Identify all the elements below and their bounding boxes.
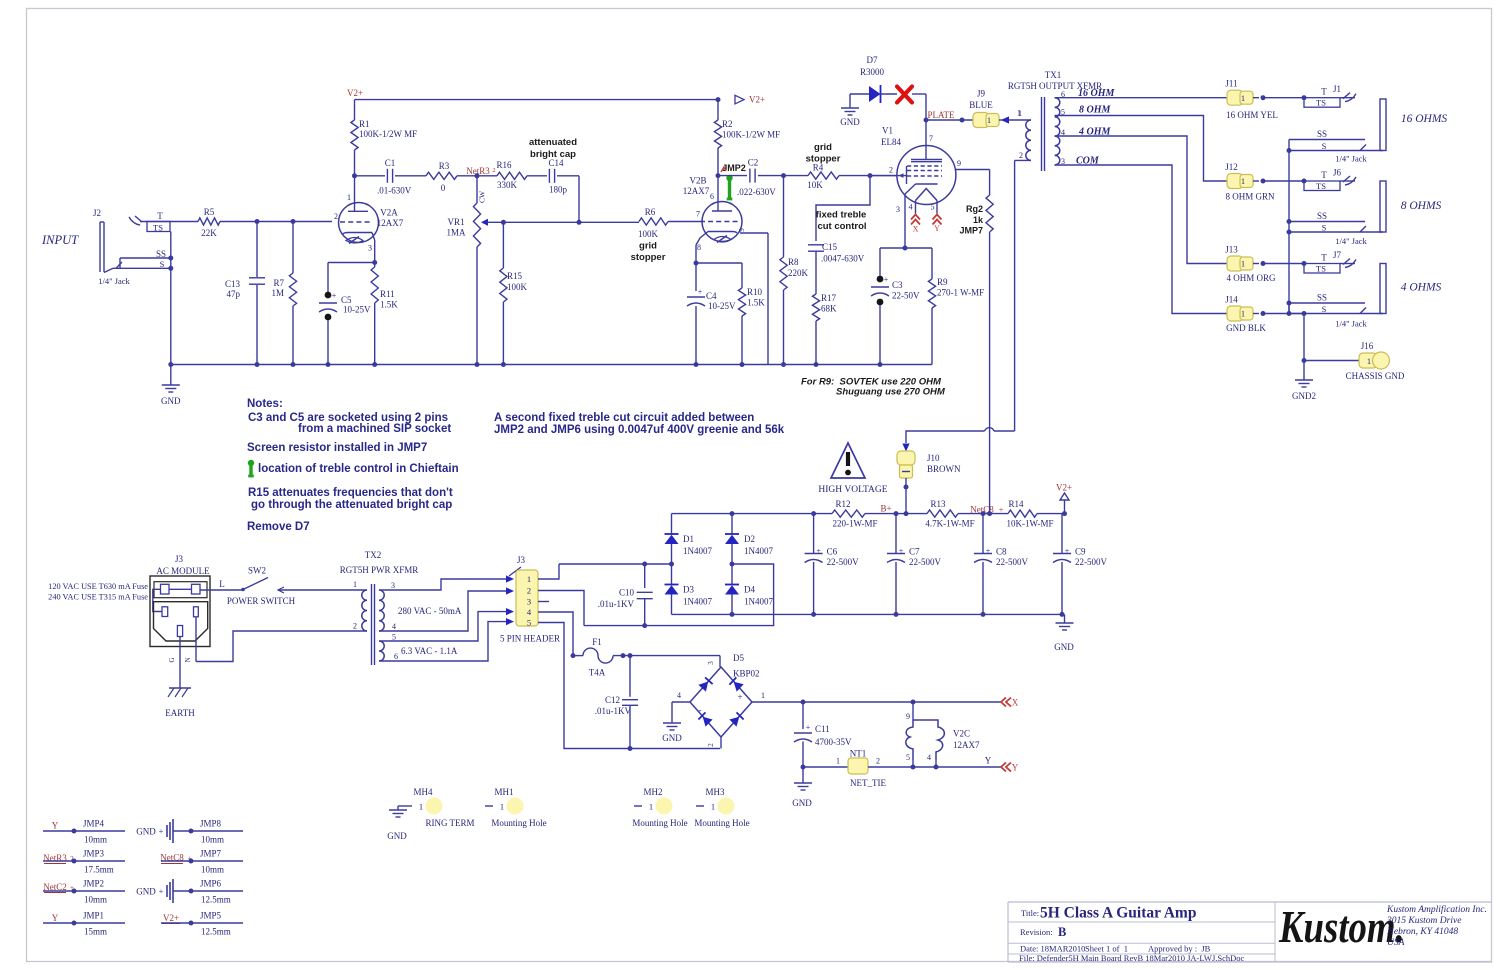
svg-text:J16: J16: [1361, 341, 1374, 351]
svg-text:C1: C1: [385, 158, 396, 168]
svg-text:GND: GND: [840, 117, 860, 127]
svg-text:INPUT: INPUT: [41, 233, 79, 247]
svg-text:4: 4: [927, 753, 931, 762]
svg-text:1: 1: [1018, 109, 1022, 118]
svg-text:D1: D1: [683, 534, 694, 544]
svg-text:Remove D7: Remove D7: [247, 521, 310, 533]
svg-text:8 OHMS: 8 OHMS: [1401, 200, 1442, 212]
svg-text:+: +: [816, 547, 821, 556]
svg-text:TS: TS: [153, 223, 163, 233]
svg-text:NET_TIE: NET_TIE: [850, 778, 886, 788]
svg-text:Title:: Title:: [1021, 908, 1039, 918]
svg-text:J9: J9: [977, 89, 986, 99]
svg-text:15mm: 15mm: [84, 927, 107, 937]
svg-text:10K-1W-MF: 10K-1W-MF: [1007, 519, 1054, 529]
svg-text:4: 4: [677, 691, 681, 700]
svg-text:R5: R5: [204, 207, 215, 217]
svg-text:+: +: [737, 692, 742, 702]
svg-text:1: 1: [1241, 176, 1245, 186]
svg-text:GND BLK: GND BLK: [1226, 323, 1266, 333]
svg-text:4 OHMS: 4 OHMS: [1401, 282, 1442, 294]
svg-text:3: 3: [896, 205, 900, 214]
svg-text:JMP2: JMP2: [83, 879, 104, 889]
svg-text:4.7K-1W-MF: 4.7K-1W-MF: [925, 519, 974, 529]
svg-text:C13: C13: [225, 279, 241, 289]
svg-text:JMP6: JMP6: [200, 879, 222, 889]
svg-text:10mm: 10mm: [201, 835, 224, 845]
svg-text:10mm: 10mm: [84, 835, 107, 845]
svg-text:J13: J13: [1225, 245, 1238, 255]
svg-text:2: 2: [876, 757, 880, 766]
svg-text:EARTH: EARTH: [165, 708, 195, 718]
svg-text:G: G: [168, 657, 176, 662]
svg-text:JMP3: JMP3: [83, 849, 105, 859]
svg-text:R4: R4: [813, 163, 824, 173]
svg-text:T4A: T4A: [589, 668, 606, 678]
svg-text:CHASSIS GND: CHASSIS GND: [1346, 371, 1405, 381]
svg-text:GND: GND: [792, 798, 812, 808]
svg-text:TS: TS: [1316, 264, 1326, 274]
svg-text:AC MODULE: AC MODULE: [156, 566, 210, 576]
svg-text:J14: J14: [1225, 295, 1238, 305]
svg-text:grid: grid: [814, 142, 832, 153]
svg-text:J10: J10: [927, 453, 940, 463]
svg-text:1/4" Jack: 1/4" Jack: [98, 276, 130, 286]
svg-text:RGT5H PWR XFMR: RGT5H PWR XFMR: [340, 565, 419, 575]
svg-text:+: +: [743, 168, 747, 175]
svg-text:C7: C7: [909, 547, 920, 557]
svg-text:D4: D4: [744, 585, 755, 595]
svg-text:12AX7: 12AX7: [683, 186, 710, 196]
svg-text:2: 2: [353, 622, 357, 631]
svg-text:2: 2: [889, 166, 893, 175]
svg-text:5: 5: [906, 753, 910, 762]
svg-text:CW: CW: [478, 190, 487, 203]
svg-text:X: X: [913, 225, 919, 234]
svg-text:TS: TS: [1316, 181, 1326, 191]
svg-text:C10: C10: [619, 588, 635, 598]
svg-text:7: 7: [929, 134, 933, 143]
svg-text:J11: J11: [1225, 79, 1237, 89]
svg-text:location of treble control in: location of treble control in Chieftain: [258, 463, 459, 475]
svg-text:1: 1: [1367, 356, 1371, 366]
svg-text:C2: C2: [748, 158, 759, 168]
svg-text:A second fixed treble cut circ: A second fixed treble cut circuit added …: [494, 412, 754, 424]
svg-text:4: 4: [909, 203, 913, 212]
svg-text:V2+: V2+: [163, 913, 179, 923]
svg-text:17.5mm: 17.5mm: [84, 865, 114, 875]
svg-text:6: 6: [394, 652, 398, 661]
svg-text:JMP2 and JMP6 using 0.0047uf 4: JMP2 and JMP6 using 0.0047uf 400V greeni…: [494, 424, 785, 436]
svg-text:GND: GND: [136, 827, 156, 837]
svg-text:+: +: [986, 547, 991, 556]
svg-text:SS: SS: [1317, 129, 1327, 139]
svg-text:1MA: 1MA: [446, 228, 466, 238]
svg-text:8: 8: [697, 243, 701, 252]
svg-text:JMP8: JMP8: [200, 819, 222, 829]
svg-text:D7: D7: [867, 55, 878, 65]
svg-text:1/4" Jack: 1/4" Jack: [1335, 319, 1367, 329]
svg-text:22-50V: 22-50V: [892, 291, 920, 301]
svg-text:5: 5: [527, 618, 531, 628]
svg-text:2: 2: [1019, 151, 1023, 160]
svg-text:9: 9: [957, 159, 961, 168]
svg-text:1/4" Jack: 1/4" Jack: [1335, 236, 1367, 246]
svg-text:V2+: V2+: [749, 95, 765, 105]
svg-text:Screen resistor installed in J: Screen resistor installed in JMP7: [247, 442, 427, 454]
svg-text:220-1W-MF: 220-1W-MF: [833, 519, 878, 529]
svg-text:1k: 1k: [973, 215, 984, 225]
svg-text:22-500V: 22-500V: [909, 557, 941, 567]
svg-text:22-500V: 22-500V: [1075, 557, 1107, 567]
svg-text:1.5K: 1.5K: [747, 298, 765, 308]
svg-text:3015 Kustom Drive: 3015 Kustom Drive: [1386, 916, 1461, 926]
svg-text:1N4007: 1N4007: [744, 597, 773, 607]
svg-text:Y: Y: [52, 913, 59, 923]
svg-text:Mounting Hole: Mounting Hole: [632, 818, 687, 828]
svg-text:V2B: V2B: [689, 176, 706, 186]
svg-text:R1: R1: [359, 119, 370, 129]
svg-text:MH2: MH2: [643, 787, 662, 797]
svg-text:1: 1: [500, 802, 504, 812]
svg-text:T: T: [1321, 170, 1327, 180]
svg-text:V2+: V2+: [347, 88, 363, 98]
svg-text:270-1 W-MF: 270-1 W-MF: [937, 288, 984, 298]
svg-text:.022-630V: .022-630V: [737, 187, 776, 197]
svg-text:MH3: MH3: [705, 787, 725, 797]
svg-text:+: +: [899, 547, 904, 556]
svg-text:Shuguang use 270 OHM: Shuguang use 270 OHM: [836, 387, 946, 398]
svg-text:5: 5: [392, 633, 396, 642]
svg-text:1N4007: 1N4007: [744, 546, 773, 556]
svg-text:BROWN: BROWN: [927, 464, 961, 474]
svg-text:stopper: stopper: [631, 252, 666, 263]
svg-text:4 OHM ORG: 4 OHM ORG: [1226, 273, 1276, 283]
svg-text:220K: 220K: [788, 268, 809, 278]
svg-text:68K: 68K: [821, 304, 837, 314]
svg-text:R12: R12: [835, 499, 850, 509]
svg-text:JMP7: JMP7: [959, 226, 983, 236]
svg-text:N: N: [184, 657, 192, 662]
svg-text:GND: GND: [136, 887, 156, 897]
svg-text:1: 1: [347, 193, 351, 202]
svg-text:R16: R16: [496, 160, 512, 170]
svg-text:X: X: [1012, 698, 1019, 708]
svg-text:J1: J1: [1333, 84, 1341, 94]
svg-text:Rg2: Rg2: [966, 204, 983, 214]
svg-text:5 PIN HEADER: 5 PIN HEADER: [500, 634, 560, 644]
svg-text:C15: C15: [822, 242, 838, 252]
svg-text:PLATE: PLATE: [928, 110, 956, 120]
svg-text:HIGH VOLTAGE: HIGH VOLTAGE: [818, 485, 887, 495]
svg-text:R3000: R3000: [860, 67, 885, 77]
svg-text:V1: V1: [882, 126, 893, 136]
svg-text:EL84: EL84: [881, 137, 901, 147]
svg-text:100K-1/2W MF: 100K-1/2W MF: [359, 129, 417, 139]
svg-text:KBP02: KBP02: [733, 669, 760, 679]
svg-text:1M: 1M: [271, 288, 284, 298]
svg-text:.01-630V: .01-630V: [377, 186, 412, 196]
svg-text:2: 2: [334, 212, 338, 221]
svg-text:240 VAC USE T315 mA Fuse: 240 VAC USE T315 mA Fuse: [48, 593, 148, 602]
svg-text:22-500V: 22-500V: [827, 557, 859, 567]
svg-text:1: 1: [649, 802, 653, 812]
svg-text:grid: grid: [639, 241, 657, 252]
svg-text:Y: Y: [934, 224, 940, 233]
svg-text:cut control: cut control: [817, 221, 866, 232]
svg-text:R17: R17: [821, 293, 837, 303]
svg-text:B: B: [1058, 925, 1066, 939]
svg-text:GND: GND: [662, 733, 682, 743]
svg-text:GND: GND: [161, 396, 181, 406]
svg-text:C8: C8: [996, 547, 1007, 557]
svg-text:T: T: [1321, 87, 1327, 97]
svg-text:POWER SWITCH: POWER SWITCH: [227, 596, 296, 606]
svg-text:47p: 47p: [227, 289, 241, 299]
svg-text:16 OHM YEL: 16 OHM YEL: [1226, 110, 1278, 120]
svg-text:12.5mm: 12.5mm: [201, 895, 231, 905]
svg-text:1: 1: [1241, 259, 1245, 269]
svg-text:+: +: [806, 723, 811, 732]
svg-text:S: S: [160, 259, 165, 269]
svg-text:File: Defender5H Main Board Re: File: Defender5H Main Board RevB 18Mar20…: [1019, 953, 1245, 963]
svg-text:1/4" Jack: 1/4" Jack: [1335, 154, 1367, 164]
svg-text:JMP1: JMP1: [83, 911, 104, 921]
svg-text:1: 1: [1241, 93, 1245, 103]
svg-text:1: 1: [761, 691, 765, 700]
svg-text:1N4007: 1N4007: [683, 546, 712, 556]
svg-text:T: T: [1321, 253, 1327, 263]
svg-text:Kustom.: Kustom.: [1278, 902, 1405, 953]
svg-text:GND: GND: [387, 831, 407, 841]
svg-text:2: 2: [492, 167, 495, 174]
svg-text:SS: SS: [1317, 211, 1327, 221]
svg-text:V2C: V2C: [953, 729, 970, 739]
svg-text:C6: C6: [827, 547, 838, 557]
svg-text:10-25V: 10-25V: [343, 305, 371, 315]
svg-text:MH1: MH1: [494, 787, 513, 797]
svg-text:R7: R7: [273, 278, 284, 288]
svg-text:V2+: V2+: [1056, 483, 1072, 493]
svg-text:+: +: [159, 887, 164, 896]
svg-text:TS: TS: [1316, 98, 1326, 108]
svg-text:JMP7: JMP7: [200, 849, 222, 859]
svg-text:4700-35V: 4700-35V: [815, 737, 852, 747]
svg-text:Mounting Hole: Mounting Hole: [491, 818, 546, 828]
svg-text:JMP4: JMP4: [83, 819, 105, 829]
svg-text:0: 0: [441, 183, 446, 193]
svg-text:10-25V: 10-25V: [708, 301, 736, 311]
svg-text:C11: C11: [815, 724, 830, 734]
svg-text:22K: 22K: [201, 228, 217, 238]
svg-text:B+: B+: [880, 504, 891, 514]
svg-text:-: -: [699, 705, 702, 715]
svg-text:Y: Y: [52, 821, 59, 831]
svg-text:R8: R8: [788, 257, 799, 267]
svg-text:12AX7: 12AX7: [953, 740, 980, 750]
svg-text:Y: Y: [985, 756, 992, 766]
svg-text:Revision:: Revision:: [1020, 927, 1053, 937]
svg-text:12AX7: 12AX7: [377, 218, 404, 228]
svg-text:D3: D3: [683, 585, 694, 595]
svg-text:J3: J3: [175, 554, 184, 564]
svg-text:120 VAC USE T630 mA Fuse: 120 VAC USE T630 mA Fuse: [48, 582, 148, 591]
svg-text:D2: D2: [744, 534, 755, 544]
svg-text:RING TERM: RING TERM: [425, 818, 474, 828]
svg-text:.0047-630V: .0047-630V: [821, 254, 865, 264]
svg-text:R10: R10: [747, 287, 763, 297]
svg-text:6: 6: [710, 192, 714, 201]
svg-text:5: 5: [931, 203, 935, 212]
svg-text:C12: C12: [605, 695, 620, 705]
svg-text:R13: R13: [930, 499, 946, 509]
svg-text:GND2: GND2: [1292, 391, 1316, 401]
svg-text:VR1: VR1: [447, 217, 464, 227]
svg-text:S: S: [1322, 141, 1327, 151]
svg-text:L: L: [219, 579, 225, 589]
svg-text:8 OHM: 8 OHM: [1079, 105, 1112, 116]
svg-text:Kustom Amplification Inc.: Kustom Amplification Inc.: [1386, 904, 1487, 915]
svg-text:TX2: TX2: [365, 550, 382, 560]
svg-text:.01u-1KV: .01u-1KV: [595, 706, 632, 716]
svg-text:7: 7: [696, 210, 700, 219]
svg-text:22-500V: 22-500V: [996, 557, 1028, 567]
svg-text:4: 4: [392, 622, 396, 631]
svg-text:280 VAC - 50mA: 280 VAC - 50mA: [398, 606, 462, 616]
svg-text:USA: USA: [1387, 938, 1405, 948]
svg-text:C9: C9: [1075, 547, 1086, 557]
svg-text:3: 3: [391, 581, 395, 590]
svg-text:1: 1: [419, 802, 423, 812]
svg-text:J3: J3: [517, 555, 526, 565]
svg-text:R15: R15: [507, 271, 523, 281]
svg-text:1.5K: 1.5K: [380, 300, 398, 310]
svg-text:bright cap: bright cap: [530, 149, 576, 160]
svg-text:R9: R9: [937, 277, 948, 287]
svg-text:C5: C5: [341, 295, 352, 305]
svg-text:J7: J7: [1333, 250, 1342, 260]
svg-text:+: +: [884, 275, 889, 284]
svg-text:1: 1: [711, 802, 715, 812]
svg-text:J12: J12: [1225, 162, 1238, 172]
svg-text:Mounting Hole: Mounting Hole: [694, 818, 749, 828]
svg-text:Notes:: Notes:: [247, 398, 283, 410]
svg-text:J6: J6: [1333, 168, 1342, 178]
svg-text:+: +: [159, 827, 164, 836]
svg-text:TX1: TX1: [1045, 70, 1062, 80]
svg-text:1: 1: [987, 115, 991, 125]
svg-text:attenuated: attenuated: [529, 137, 577, 148]
svg-text:BLUE: BLUE: [969, 100, 993, 110]
svg-text:330K: 330K: [497, 180, 518, 190]
svg-text:180p: 180p: [549, 185, 568, 195]
svg-text:1: 1: [836, 757, 840, 766]
svg-text:D5: D5: [733, 653, 744, 663]
svg-text:R6: R6: [645, 207, 656, 217]
svg-text:1N4007: 1N4007: [683, 597, 712, 607]
svg-text:3: 3: [527, 597, 531, 607]
svg-text:R2: R2: [722, 119, 733, 129]
svg-text:2: 2: [707, 743, 715, 747]
svg-text:S: S: [1322, 223, 1327, 233]
svg-text:SS: SS: [1317, 293, 1327, 303]
svg-text:F1: F1: [592, 637, 602, 647]
svg-text:100K-1/2W MF: 100K-1/2W MF: [722, 130, 780, 140]
svg-text:10K: 10K: [807, 180, 823, 190]
svg-text:1: 1: [527, 574, 531, 584]
svg-text:2: 2: [527, 586, 531, 596]
svg-text:Hebron, KY 41048: Hebron, KY 41048: [1386, 927, 1458, 937]
svg-text:+: +: [999, 506, 1004, 515]
svg-text:S: S: [1322, 304, 1327, 314]
svg-text:16 OHMS: 16 OHMS: [1401, 113, 1448, 125]
svg-text:GND: GND: [1054, 642, 1074, 652]
svg-text:6.3 VAC - 1.1A: 6.3 VAC - 1.1A: [401, 646, 458, 656]
svg-text:Y: Y: [1012, 763, 1019, 773]
svg-text:R14: R14: [1008, 499, 1024, 509]
svg-text:.01u-1KV: .01u-1KV: [598, 599, 635, 609]
svg-text:R3: R3: [439, 161, 450, 171]
svg-text:NT1: NT1: [850, 749, 867, 759]
svg-text:9: 9: [906, 712, 910, 721]
svg-text:+: +: [332, 291, 337, 300]
svg-text:3: 3: [707, 661, 715, 665]
svg-text:T: T: [157, 211, 163, 221]
svg-text:100K: 100K: [638, 229, 659, 239]
svg-text:10mm: 10mm: [201, 865, 224, 875]
svg-text:100K: 100K: [507, 282, 528, 292]
svg-text:fixed treble: fixed treble: [816, 210, 867, 221]
svg-text:J2: J2: [93, 208, 101, 218]
svg-text:1: 1: [353, 580, 357, 589]
svg-text:5H Class A Guitar Amp: 5H Class A Guitar Amp: [1040, 905, 1196, 922]
svg-text:JMP5: JMP5: [200, 911, 222, 921]
svg-text:SW2: SW2: [248, 566, 266, 576]
svg-text:+: +: [1065, 547, 1070, 556]
svg-text:from a machined SIP socket: from a machined SIP socket: [298, 423, 451, 435]
svg-text:9: 9: [738, 228, 746, 232]
svg-text:8 OHM GRN: 8 OHM GRN: [1225, 192, 1275, 202]
svg-text:10mm: 10mm: [84, 895, 107, 905]
svg-text:go through the attenuated brig: go through the attenuated bright cap: [251, 499, 452, 511]
svg-text:12.5mm: 12.5mm: [201, 927, 231, 937]
svg-text:1: 1: [1241, 309, 1245, 319]
svg-text:C4: C4: [706, 291, 717, 301]
svg-text:C3: C3: [892, 280, 903, 290]
svg-text:MH4: MH4: [413, 787, 433, 797]
svg-text:+: +: [698, 288, 703, 297]
svg-text:V2A: V2A: [380, 208, 398, 218]
svg-text:R15 attenuates frequencies tha: R15 attenuates frequencies that don't: [248, 487, 453, 499]
svg-text:R11: R11: [380, 289, 395, 299]
svg-text:3: 3: [368, 244, 372, 253]
